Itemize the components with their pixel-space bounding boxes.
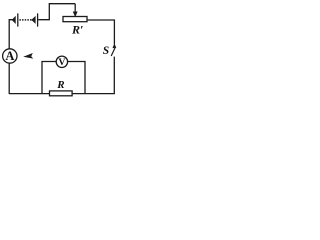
resistor R body [50, 91, 73, 96]
battery cell 2 short electrode [32, 17, 35, 23]
wire switch to bottom right corner [113, 57, 115, 94]
switch S blade [111, 47, 115, 56]
wire voltmeter right branch [68, 62, 85, 94]
wire voltmeter left branch [42, 62, 56, 94]
svg-text:R′: R′ [71, 23, 83, 37]
battery cell 1 short electrode [12, 17, 15, 23]
svg-text:V: V [58, 57, 65, 68]
svg-text:A: A [5, 49, 14, 63]
switch S top contact [113, 44, 116, 48]
rheostat wiper arrowhead [73, 12, 77, 17]
rheostat R' body [63, 17, 87, 22]
svg-text:R: R [56, 79, 64, 91]
ammeter A body [3, 49, 17, 63]
voltmeter V body [56, 56, 67, 67]
battery cell 2 long electrode [37, 13, 39, 26]
battery cell 1 long electrode [17, 13, 19, 26]
current direction arrow [25, 54, 32, 58]
wire rheostat to right side down to switch [87, 20, 114, 44]
wire bottom [9, 93, 115, 95]
rheostat wiper arrow stem [74, 4, 76, 13]
wire battery left hook [9, 20, 13, 49]
wire dashed between cells [19, 19, 31, 21]
wire battery positive to riser and top wire [38, 4, 75, 20]
svg-text:S: S [103, 45, 109, 57]
wire left bottom to ammeter [8, 63, 10, 94]
